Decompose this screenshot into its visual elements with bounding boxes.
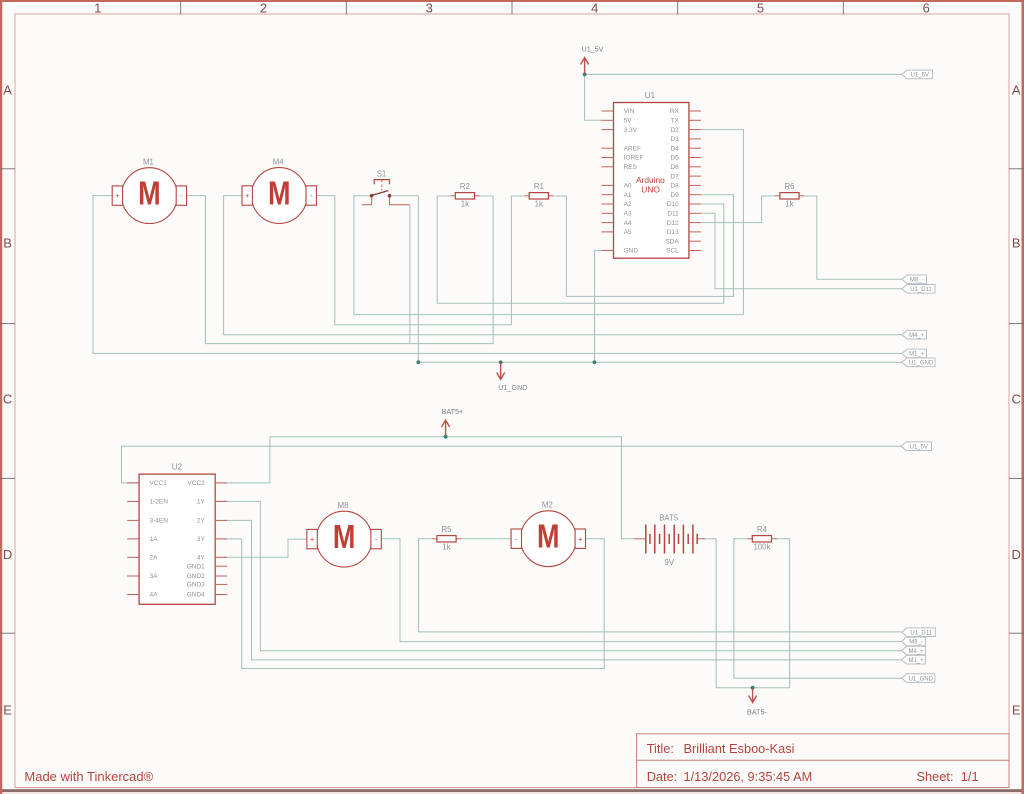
wire switch S1 right contact to U1_GND net bbox=[391, 196, 419, 363]
svg-text:GND3: GND3 bbox=[187, 582, 205, 589]
svg-text:R1: R1 bbox=[534, 182, 544, 191]
svg-text:UNO: UNO bbox=[641, 185, 660, 195]
switch S1 bbox=[362, 170, 410, 205]
svg-text:100k: 100k bbox=[753, 543, 770, 552]
svg-text:3Y: 3Y bbox=[197, 536, 206, 543]
wire switch S1 terminal 3 leg down bbox=[409, 205, 411, 344]
svg-text:2A: 2A bbox=[150, 555, 159, 562]
svg-text:BAT5: BAT5 bbox=[659, 513, 679, 522]
svg-text:2: 2 bbox=[260, 1, 267, 16]
svg-text:D3: D3 bbox=[670, 136, 679, 143]
svg-text:GND1: GND1 bbox=[187, 563, 205, 570]
frame row letters bbox=[3, 83, 1021, 718]
wire R2 left to Arduino D10 bbox=[437, 196, 724, 303]
Made with Tinkercad watermark bbox=[24, 769, 153, 784]
svg-text:1k: 1k bbox=[535, 200, 543, 209]
svg-text:Arduino: Arduino bbox=[636, 175, 665, 185]
wire U2 2Y to M1_+ flag bbox=[224, 520, 902, 660]
net flag M1_+ bbox=[902, 349, 927, 358]
resistor R4 bbox=[747, 525, 776, 552]
svg-text:C: C bbox=[3, 391, 12, 406]
resistor R5 bbox=[432, 525, 461, 552]
svg-text:M4_+: M4_+ bbox=[908, 649, 924, 655]
svg-text:M8: M8 bbox=[338, 501, 349, 510]
svg-text:+: + bbox=[115, 191, 120, 200]
svg-text:3A: 3A bbox=[150, 573, 159, 580]
svg-text:D8: D8 bbox=[670, 183, 679, 190]
svg-text:M8_-: M8_- bbox=[909, 640, 923, 646]
wire R6 right to M8_- flag bbox=[804, 196, 902, 279]
svg-text:+: + bbox=[245, 191, 250, 200]
svg-text:M1_+: M1_+ bbox=[908, 658, 924, 664]
wire Arduino D11 to U1_D11 flag bbox=[701, 213, 902, 288]
junction BAT5- bbox=[751, 686, 755, 690]
svg-text:A2: A2 bbox=[624, 201, 632, 208]
power symbol U1_5V bbox=[581, 45, 604, 74]
svg-text:Sheet:: Sheet: bbox=[917, 769, 954, 784]
motor M8 bbox=[307, 501, 381, 567]
svg-text:M1_+: M1_+ bbox=[909, 352, 925, 358]
svg-text:M1: M1 bbox=[143, 157, 154, 166]
net flag M8_- bbox=[902, 275, 927, 284]
svg-text:Made with Tinkercad®: Made with Tinkercad® bbox=[24, 769, 153, 784]
svg-text:SDA: SDA bbox=[665, 238, 679, 245]
svg-text:D: D bbox=[1012, 547, 1021, 562]
svg-text:1k: 1k bbox=[785, 200, 793, 209]
svg-text:3-4EN: 3-4EN bbox=[150, 518, 169, 525]
frame column numbers bbox=[94, 1, 930, 16]
svg-text:BAT5+: BAT5+ bbox=[442, 407, 464, 416]
wire U2 VCC2 to BAT5+ and battery positive bbox=[224, 437, 635, 539]
wire R4 left to U1_GND flag bbox=[734, 539, 902, 678]
svg-text:R5: R5 bbox=[442, 525, 453, 534]
frame row ticks bbox=[0, 169, 1024, 633]
net flag M4_+ bbox=[902, 330, 927, 339]
svg-text:AREF: AREF bbox=[624, 145, 641, 152]
svg-text:1k: 1k bbox=[461, 200, 469, 209]
svg-text:E: E bbox=[3, 703, 12, 718]
svg-text:M4: M4 bbox=[273, 157, 284, 166]
svg-text:5: 5 bbox=[757, 1, 764, 16]
svg-text:R2: R2 bbox=[460, 182, 470, 191]
frame column ticks bbox=[181, 0, 844, 14]
svg-text:M: M bbox=[537, 519, 560, 556]
svg-text:B: B bbox=[3, 236, 12, 251]
svg-text:1k: 1k bbox=[442, 543, 450, 552]
wire U2 1Y to M4_+ flag bbox=[224, 501, 902, 650]
resistor R2 bbox=[450, 182, 479, 209]
svg-text:M: M bbox=[268, 176, 291, 213]
svg-text:A0: A0 bbox=[624, 183, 632, 190]
svg-text:1-2EN: 1-2EN bbox=[150, 499, 169, 506]
wire M1- to R2 right bbox=[186, 196, 493, 344]
svg-text:Brilliant Esboo-Kasi: Brilliant Esboo-Kasi bbox=[684, 741, 795, 756]
svg-text:1Y: 1Y bbox=[197, 499, 206, 506]
svg-text:U1_D11: U1_D11 bbox=[910, 287, 932, 293]
svg-text:U1_D11: U1_D11 bbox=[910, 630, 932, 636]
wire U1_5V power to 5V pin and flag bbox=[585, 74, 902, 120]
svg-text:D7: D7 bbox=[670, 173, 679, 180]
wire R1 right to Arduino D9 bbox=[554, 195, 734, 297]
svg-text:U1_5V: U1_5V bbox=[910, 444, 928, 450]
wire U1_5V net line to U2 VCC1 bbox=[122, 446, 902, 483]
svg-text:1/13/2026, 9:35:45 AM: 1/13/2026, 9:35:45 AM bbox=[684, 769, 813, 784]
junction U1_GND at symbol bbox=[499, 360, 503, 364]
svg-text:IOREF: IOREF bbox=[624, 155, 644, 162]
svg-text:M: M bbox=[333, 519, 356, 556]
svg-text:GND4: GND4 bbox=[187, 592, 205, 599]
power symbol U1_GND bbox=[497, 363, 528, 392]
svg-text:U1: U1 bbox=[645, 91, 656, 100]
svg-text:D13: D13 bbox=[667, 229, 679, 236]
wire R6 left to Arduino D12 bbox=[701, 196, 775, 223]
svg-text:GND: GND bbox=[624, 248, 639, 255]
svg-text:U1_GND: U1_GND bbox=[909, 361, 934, 367]
net flag U1_5V bbox=[902, 70, 933, 79]
svg-text:M4_+: M4_+ bbox=[909, 333, 925, 339]
H-bridge driver U2 bbox=[127, 463, 227, 605]
power symbol BAT5- bbox=[747, 689, 767, 717]
wire switch S1 left contact to Arduino D2 bbox=[354, 130, 744, 315]
svg-text:D2: D2 bbox=[670, 127, 679, 134]
svg-text:D: D bbox=[3, 547, 12, 562]
svg-text:U1_5V: U1_5V bbox=[911, 73, 929, 79]
svg-text:Title:: Title: bbox=[647, 741, 674, 756]
svg-text:U1_GND: U1_GND bbox=[909, 676, 934, 682]
svg-text:D5: D5 bbox=[670, 155, 679, 162]
wire R5 right to M2 negative bbox=[461, 538, 512, 540]
svg-text:U2: U2 bbox=[172, 463, 183, 472]
svg-text:1: 1 bbox=[94, 1, 101, 16]
svg-text:U1_5V: U1_5V bbox=[582, 45, 604, 54]
svg-text:BAT5-: BAT5- bbox=[747, 708, 767, 717]
svg-text:3: 3 bbox=[426, 1, 433, 16]
wire R5 left to U1_D11 flag bbox=[419, 539, 903, 632]
resistor R6 bbox=[775, 182, 804, 209]
svg-text:A5: A5 bbox=[624, 229, 632, 236]
svg-text:A4: A4 bbox=[624, 220, 632, 227]
net flag M8_- bbox=[902, 637, 926, 646]
resistor R1 bbox=[524, 182, 553, 209]
net flag U1_GND bbox=[902, 674, 935, 683]
svg-text:VCC2: VCC2 bbox=[187, 480, 205, 487]
svg-text:E: E bbox=[1012, 703, 1021, 718]
svg-text:B: B bbox=[1012, 236, 1021, 251]
title block bbox=[637, 734, 1009, 788]
svg-text:TX: TX bbox=[670, 118, 679, 125]
svg-text:C: C bbox=[1012, 391, 1021, 406]
svg-text:M8_-: M8_- bbox=[910, 278, 924, 284]
wire U2 4Y to M8 positive bbox=[224, 539, 307, 557]
svg-text:4A: 4A bbox=[150, 592, 159, 599]
svg-text:A: A bbox=[3, 83, 12, 98]
svg-text:GND2: GND2 bbox=[187, 573, 205, 580]
Arduino UNO U1 bbox=[602, 91, 701, 258]
junction BAT5+ bbox=[444, 435, 448, 439]
net flag M1_+ bbox=[902, 655, 926, 664]
svg-text:Date:: Date: bbox=[647, 769, 678, 784]
svg-text:1/1: 1/1 bbox=[961, 769, 979, 784]
svg-text:D12: D12 bbox=[667, 220, 679, 227]
net flag U1_5V bbox=[901, 442, 932, 451]
svg-text:A1: A1 bbox=[624, 192, 632, 199]
svg-text:+: + bbox=[578, 534, 583, 543]
svg-text:A3: A3 bbox=[624, 211, 632, 218]
motor M1 bbox=[112, 157, 186, 223]
wire M4+ to M4_+ net line bbox=[224, 196, 902, 335]
svg-text:9V: 9V bbox=[665, 558, 675, 567]
svg-text:U1_GND: U1_GND bbox=[498, 383, 527, 392]
svg-text:SCL: SCL bbox=[666, 248, 679, 255]
wire M1+ to M1_+ net line bbox=[93, 196, 902, 354]
svg-text:RES: RES bbox=[624, 164, 638, 171]
svg-text:1A: 1A bbox=[150, 536, 159, 543]
svg-text:4Y: 4Y bbox=[197, 555, 206, 562]
svg-text:VIN: VIN bbox=[624, 108, 635, 115]
svg-text:4: 4 bbox=[591, 1, 598, 16]
net flag U1_D11 bbox=[902, 285, 935, 294]
svg-text:R6: R6 bbox=[785, 182, 795, 191]
net flag U1_GND bbox=[902, 358, 935, 367]
motor M4 bbox=[242, 157, 316, 223]
net flag M4_+ bbox=[902, 646, 926, 655]
battery BAT5 9V bbox=[634, 513, 705, 567]
wire Arduino GND pin to U1_GND net bbox=[595, 251, 602, 363]
svg-text:5V: 5V bbox=[624, 118, 633, 125]
svg-text:D9: D9 bbox=[670, 192, 679, 199]
svg-text:RX: RX bbox=[670, 108, 680, 115]
wire U2 3Y to M2 positive bbox=[224, 539, 604, 669]
svg-text:3.3V: 3.3V bbox=[624, 127, 638, 134]
svg-text:D11: D11 bbox=[667, 211, 679, 218]
svg-text:6: 6 bbox=[923, 1, 930, 16]
wire M8 negative to M8_- flag bbox=[382, 539, 902, 642]
wire battery negative to R4 right via BAT5- bbox=[705, 539, 789, 688]
junction U1_5V bbox=[583, 73, 587, 77]
wire M4- to R1 left bbox=[317, 196, 524, 325]
svg-text:D6: D6 bbox=[670, 164, 679, 171]
svg-text:D4: D4 bbox=[670, 145, 679, 152]
svg-text:M2: M2 bbox=[542, 501, 553, 510]
svg-text:2Y: 2Y bbox=[197, 518, 206, 525]
junction U1_GND at switch bbox=[416, 360, 420, 364]
power symbol BAT5+ bbox=[442, 407, 464, 436]
svg-text:+: + bbox=[310, 535, 315, 544]
svg-text:A: A bbox=[1012, 83, 1021, 98]
svg-text:S1: S1 bbox=[377, 170, 387, 179]
svg-text:VCC1: VCC1 bbox=[150, 480, 168, 487]
wire U1_GND net line bbox=[418, 361, 902, 363]
motor M2 bbox=[511, 501, 585, 567]
junction U1_GND at Arduino bbox=[593, 360, 597, 364]
svg-text:M: M bbox=[138, 176, 161, 213]
svg-text:D10: D10 bbox=[667, 201, 679, 208]
net flag U1_D11 bbox=[902, 628, 935, 637]
svg-text:R4: R4 bbox=[757, 525, 768, 534]
